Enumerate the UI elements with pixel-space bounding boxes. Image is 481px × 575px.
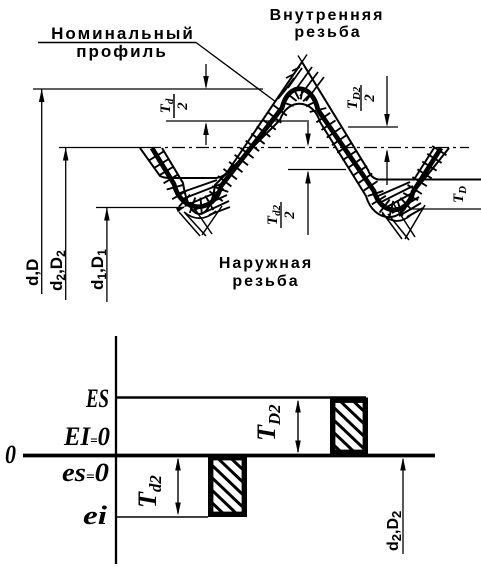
svg-text:2: 2 bbox=[282, 211, 298, 220]
svg-text:d2,D2: d2,D2 bbox=[385, 511, 404, 551]
TD2 double arrow bbox=[297, 401, 299, 452]
svg-text:es=0: es=0 bbox=[62, 458, 109, 487]
svg-text:Td2: Td2 bbox=[265, 204, 283, 225]
svg-text:EI=0: EI=0 bbox=[63, 422, 110, 451]
label TD2 bbox=[252, 404, 284, 441]
svg-text:Внутренняя: Внутренняя bbox=[270, 7, 385, 24]
ES line bbox=[116, 396, 366, 398]
svg-text:Td2: Td2 bbox=[133, 475, 165, 508]
TD2 upper limit line (right of peak) bbox=[348, 126, 398, 128]
dimension d1,D1 vertical bbox=[106, 208, 108, 303]
svg-text:0: 0 bbox=[5, 440, 16, 469]
dimension d,D vertical bbox=[41, 89, 43, 294]
svg-text:ES: ES bbox=[85, 384, 109, 413]
label d1,D1 bbox=[88, 249, 109, 290]
Td2 lower limit line bbox=[288, 169, 346, 171]
label Td2/2 fraction bbox=[265, 202, 298, 228]
svg-text:резьба: резьба bbox=[294, 24, 361, 41]
d,D crest line bbox=[33, 88, 263, 90]
zone hatch fills bbox=[177, 180, 217, 194]
Td2 double arrow bbox=[177, 459, 179, 513]
thread profile: lower tolerance boundary (external) bbox=[162, 104, 449, 217]
label d2,D2 bbox=[47, 250, 68, 291]
thread profile: upper tolerance boundary (internal) bbox=[140, 62, 481, 180]
dim Td/2 bbox=[205, 64, 207, 87]
label d,D bbox=[23, 259, 42, 286]
svg-text:2: 2 bbox=[362, 94, 378, 103]
leader line to profile bbox=[196, 43, 276, 103]
leader underline bbox=[38, 42, 196, 44]
svg-text:резьба: резьба bbox=[232, 273, 299, 290]
svg-text:TD: TD bbox=[451, 186, 469, 203]
svg-text:d1,D1: d1,D1 bbox=[88, 249, 109, 290]
svg-text:ei: ei bbox=[83, 501, 108, 530]
d2,D2 leader bottom right bbox=[402, 459, 404, 554]
svg-text:2: 2 bbox=[175, 102, 191, 111]
label Td2 bbox=[133, 475, 165, 508]
svg-text:TD2: TD2 bbox=[345, 86, 363, 109]
tolerance band hatch rungs bbox=[150, 151, 165, 160]
dim Td2/2 bbox=[307, 122, 309, 144]
ei line bbox=[116, 516, 208, 518]
svg-text:Наружная: Наружная bbox=[219, 255, 313, 272]
label T (cut at right edge) bbox=[451, 186, 469, 203]
label TD2/2 fraction bbox=[345, 85, 378, 111]
zero line bbox=[23, 454, 435, 458]
TD2 tolerance box (internal, hatched) bbox=[333, 400, 366, 452]
svg-text:d2,D2: d2,D2 bbox=[47, 250, 68, 291]
axis vertical bbox=[115, 336, 117, 564]
svg-text:профиль: профиль bbox=[76, 42, 168, 61]
dimension d2,D2 vertical bbox=[65, 148, 67, 301]
line d-Td limit bbox=[166, 120, 309, 122]
svg-text:d,D: d,D bbox=[23, 259, 42, 286]
dim TD2/2 bbox=[386, 76, 388, 124]
label d2,D2 bottom bbox=[385, 511, 404, 551]
svg-text:TD2: TD2 bbox=[252, 404, 284, 441]
label Td/2 fraction bbox=[158, 94, 191, 118]
svg-text:Номинальный: Номинальный bbox=[51, 24, 195, 43]
Td2 tolerance box (external, hatched) bbox=[211, 458, 245, 515]
pitch line (dash-dot centerline d2,D2) bbox=[59, 147, 148, 149]
d1 tangent line right bbox=[412, 208, 481, 210]
thread profile: nominal thick line bbox=[152, 89, 441, 210]
d1,D1 horizontal line bbox=[96, 207, 184, 209]
